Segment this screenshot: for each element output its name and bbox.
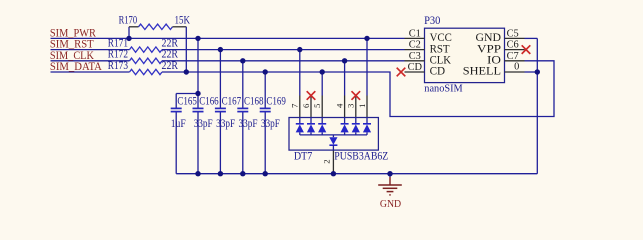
svg-text:VPP: VPP (477, 43, 501, 55)
svg-text:VCC: VCC (430, 32, 452, 44)
svg-text:SIM_CLK: SIM_CLK (50, 50, 95, 62)
svg-text:RST: RST (430, 43, 450, 55)
svg-text:CD: CD (408, 62, 423, 73)
svg-text:22R: 22R (162, 37, 179, 49)
svg-text:R172: R172 (108, 49, 128, 61)
svg-text:C167: C167 (222, 96, 242, 108)
svg-text:33pF: 33pF (261, 118, 280, 130)
svg-text:4: 4 (334, 103, 344, 108)
svg-text:C3: C3 (409, 51, 421, 62)
svg-text:6: 6 (301, 103, 311, 108)
svg-text:CLK: CLK (430, 55, 452, 67)
svg-text:33pF: 33pF (239, 118, 258, 130)
svg-text:C168: C168 (244, 96, 264, 108)
svg-text:3: 3 (346, 103, 356, 108)
svg-text:C166: C166 (199, 96, 219, 108)
svg-text:CD: CD (430, 66, 446, 78)
svg-text:SIM_PWR: SIM_PWR (50, 27, 96, 39)
svg-text:C1: C1 (409, 28, 421, 39)
svg-text:C5: C5 (507, 28, 519, 39)
svg-text:P30: P30 (424, 15, 441, 27)
svg-text:5: 5 (312, 103, 322, 108)
svg-text:R171: R171 (108, 37, 128, 49)
svg-text:SHELL: SHELL (463, 66, 501, 78)
svg-text:2: 2 (322, 159, 332, 163)
svg-text:SIM_RST: SIM_RST (50, 39, 94, 51)
svg-text:GND: GND (380, 199, 401, 210)
svg-text:1uF: 1uF (171, 118, 186, 130)
svg-text:C7: C7 (507, 51, 519, 62)
svg-text:C2: C2 (409, 40, 421, 51)
svg-text:C6: C6 (507, 40, 519, 51)
svg-text:DT7: DT7 (294, 150, 313, 162)
svg-text:GND: GND (476, 32, 502, 44)
svg-text:0: 0 (514, 62, 519, 73)
svg-text:22R: 22R (162, 49, 179, 61)
svg-text:15K: 15K (175, 15, 191, 27)
svg-text:C165: C165 (177, 96, 197, 108)
svg-text:PUSB3AB6Z: PUSB3AB6Z (334, 150, 388, 162)
svg-text:C169: C169 (266, 96, 286, 108)
svg-text:R170: R170 (119, 15, 138, 27)
svg-text:1: 1 (357, 104, 367, 108)
svg-text:22R: 22R (162, 60, 179, 72)
svg-text:33pF: 33pF (216, 118, 235, 130)
svg-text:nanoSIM: nanoSIM (424, 84, 463, 95)
svg-text:SIM_DATA: SIM_DATA (50, 61, 103, 73)
svg-text:33pF: 33pF (194, 118, 213, 130)
svg-text:R173: R173 (108, 60, 129, 72)
svg-text:7: 7 (290, 103, 300, 108)
svg-text:IO: IO (487, 55, 501, 67)
